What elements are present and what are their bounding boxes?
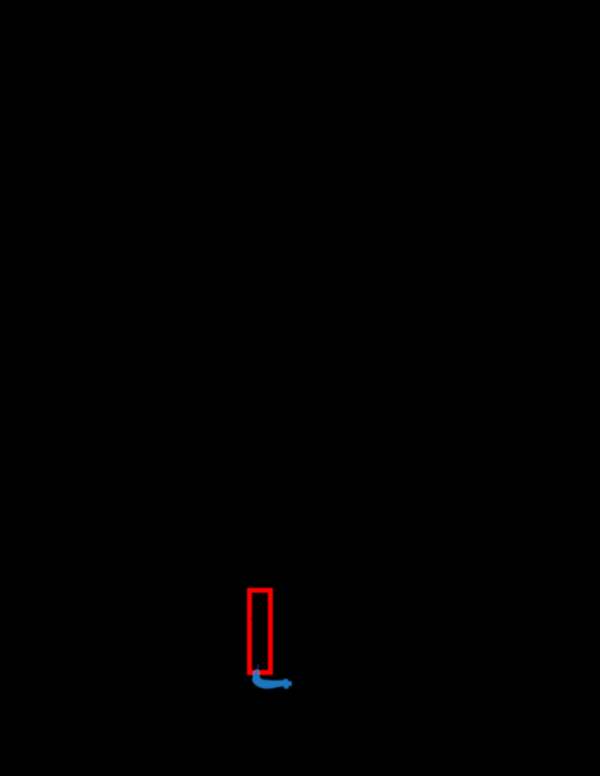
blue swoosh arrow tail tip (faint) (257, 664, 258, 670)
blue arrowhead (281, 679, 292, 689)
dark dot on rectangle left border (251, 618, 252, 620)
blue swoosh arrow body (252, 669, 283, 688)
red annotation rectangle (250, 590, 271, 672)
